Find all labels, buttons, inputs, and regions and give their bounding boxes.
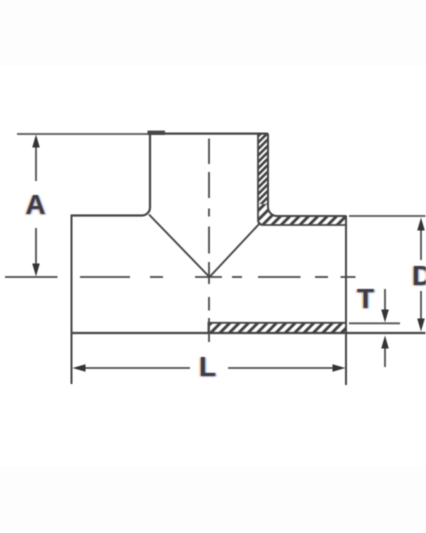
- dimension A: vertical line with arrows: [35, 145, 37, 266]
- dimension D: arrowhead down: [417, 319, 425, 332]
- centerline: run horizontal dash-dot: [5, 276, 356, 278]
- svg-text:A: A: [25, 189, 45, 220]
- tee body: branch left wall with fillet into run top wall: [72, 134, 151, 216]
- label A: [24, 189, 47, 220]
- label T: [356, 283, 376, 314]
- svg-text:L: L: [199, 351, 216, 382]
- extension line: top of bottom wall to right (for T): [349, 322, 400, 324]
- tee body: right pipe end face + L extension line: [345, 216, 347, 386]
- sectioned wall: corner + run top-right band hatch: [258, 204, 346, 225]
- sectioned wall outline: run bottom band top edge + left edge: [209, 323, 347, 333]
- dimension D: vertical line with arrows: [420, 228, 422, 321]
- dimension T: lower arrow pointing up: [384, 345, 386, 367]
- sectioned wall outline: inner surface branch right + fillet + run top inner: [258, 134, 346, 225]
- dimension L: arrowhead right: [333, 364, 346, 372]
- dimension L: horizontal line with arrows: [84, 367, 334, 369]
- extension line: top of run to right edge (for D): [349, 215, 426, 217]
- crotch weld line left (diagonal): [149, 215, 210, 278]
- tee body: top extension line (left of branch): [17, 133, 150, 135]
- dimension A: arrowhead down: [32, 264, 40, 277]
- centerline: branch vertical dash-dot: [208, 139, 210, 343]
- dimension L: arrowhead left: [73, 364, 86, 372]
- svg-text:D: D: [412, 260, 426, 291]
- crotch weld line right (diagonal): [210, 223, 261, 278]
- label D: [411, 260, 426, 291]
- dimension T: upper arrow pointing down: [384, 289, 386, 312]
- sectioned wall: run bottom band hatch: [209, 323, 347, 333]
- label L: [198, 351, 218, 382]
- tee body: left pipe end face + L extension line: [71, 215, 73, 385]
- tee body: thick cap segment at branch top left corner: [148, 131, 166, 135]
- dimension A: arrowhead up: [32, 135, 40, 148]
- sectioned wall outline: outer surface branch right + fillet + run top: [268, 134, 346, 216]
- sectioned wall: branch right vertical band hatch: [258, 134, 268, 204]
- svg-text:T: T: [357, 283, 374, 314]
- tee body: bottom outer line + D extension to right edge: [72, 332, 426, 334]
- dimension D: arrowhead up: [417, 218, 425, 231]
- tee body: branch top face line: [148, 132, 268, 134]
